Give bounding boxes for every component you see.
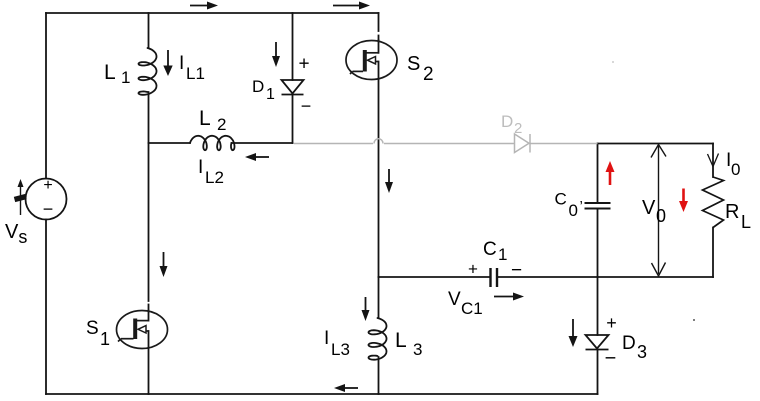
svg-text:L: L [741, 212, 751, 232]
svg-text:L1: L1 [186, 64, 205, 83]
mosfet S1 [117, 311, 168, 349]
mosfet S2 [346, 41, 397, 80]
diode D2 gray [515, 134, 530, 153]
arrow mid down (below S2) [385, 169, 393, 193]
wire left vertical lower [45, 220, 47, 395]
wire C0 branch bottom [597, 210, 599, 278]
svg-text:L: L [104, 61, 116, 84]
svg-text:−: − [43, 199, 54, 219]
wire S2 branch top [378, 13, 380, 31]
svg-text:I: I [324, 328, 329, 349]
svg-text:C1: C1 [461, 299, 483, 318]
svg-text:I: I [179, 53, 184, 74]
wire RL branch upper [712, 144, 714, 178]
wire D3 branch upper [597, 277, 599, 335]
arrow IL3 down [362, 297, 370, 321]
svg-text:Vs: Vs [5, 221, 27, 247]
svg-text:R: R [725, 201, 739, 223]
svg-text:1: 1 [100, 329, 110, 349]
svg-text:−: − [605, 348, 617, 370]
svg-text:C: C [483, 239, 497, 260]
wire L2 row right [232, 142, 293, 144]
svg-text:+: + [606, 313, 617, 333]
arrow V0 double [651, 145, 666, 277]
wire C1 row left [379, 276, 491, 278]
svg-text:1: 1 [266, 86, 275, 103]
inductor L2 [190, 136, 235, 150]
svg-text:−: − [301, 96, 312, 116]
svg-text:L: L [199, 107, 211, 130]
svg-text:C: C [555, 190, 567, 209]
svg-text:0: 0 [569, 201, 578, 220]
svg-text:3: 3 [413, 340, 422, 359]
wire D3 branch lower [597, 350, 599, 395]
wire bottom horizontal [46, 393, 598, 395]
svg-text:1: 1 [498, 245, 507, 264]
arrow I0 chevron on RL wire [708, 154, 719, 167]
wire C1 row right [497, 276, 713, 278]
stray dot [693, 319, 695, 321]
wire S2 branch lower [378, 62, 380, 278]
wire L2 row left [149, 142, 191, 144]
diode D3 [586, 335, 609, 350]
arrow top wire 2 [333, 2, 370, 10]
svg-text:V: V [642, 197, 656, 219]
svg-text:1: 1 [121, 68, 130, 87]
svg-text:D: D [622, 333, 636, 354]
svg-text:3: 3 [637, 342, 647, 362]
svg-text:’: ’ [580, 198, 583, 215]
wire branch2 inside S1 circle upper [148, 311, 150, 321]
wire S2 branch dash [378, 36, 380, 41]
wire branch2 middle [148, 92, 150, 301]
svg-text:0: 0 [731, 160, 740, 179]
svg-text:V: V [448, 289, 461, 310]
wire D1 branch lower [292, 95, 294, 144]
voltage source Vs circle [26, 179, 67, 220]
resistor RL [703, 177, 724, 228]
wire L3 branch upper [378, 277, 380, 318]
arrow IL1 down [163, 50, 172, 76]
arrow D1 down [272, 42, 280, 67]
svg-text:+: + [298, 54, 309, 75]
svg-text:2: 2 [514, 120, 522, 137]
arrow red down (load current) [679, 189, 688, 213]
wire left vertical (Vs branch) [45, 13, 47, 179]
wire branch2 below S1 [148, 331, 150, 394]
capacitor C0' [585, 203, 611, 209]
arrow top wire 1 [190, 2, 218, 10]
arrow bottom left [334, 384, 358, 392]
svg-text:2: 2 [423, 64, 434, 85]
svg-text:I: I [198, 157, 203, 178]
wire D1 branch vertical [292, 13, 294, 80]
diode D1 [282, 80, 304, 95]
wire S2 branch inside circle upper [378, 40, 380, 53]
inductor L1 [139, 48, 157, 95]
wire output top [598, 143, 714, 145]
svg-text:S: S [86, 318, 99, 339]
svg-text:L3: L3 [331, 340, 350, 359]
arrow VC1 right [494, 293, 524, 301]
wire branch2 dash above S1 [148, 305, 150, 311]
svg-text:−: − [511, 260, 522, 281]
arrow under L2 left [245, 153, 269, 161]
svg-text:L2: L2 [205, 168, 224, 187]
svg-text:D: D [501, 112, 513, 131]
inductor L3 [369, 318, 387, 360]
arrow D3 down [569, 319, 578, 347]
capacitor C1 [491, 268, 498, 287]
svg-text:2: 2 [217, 115, 226, 134]
Vs left polarity arrow [15, 179, 27, 215]
arrow branch2 down (above S1) [160, 252, 168, 277]
svg-text:D: D [252, 77, 264, 96]
wire D2 gray row [294, 134, 598, 153]
svg-text:+: + [468, 260, 478, 279]
wire L3 branch lower [378, 357, 380, 394]
faint speck [612, 61, 614, 63]
svg-text:S: S [407, 53, 420, 75]
svg-text:+: + [43, 177, 52, 194]
wire RL branch lower [712, 228, 714, 278]
svg-text:0: 0 [656, 206, 666, 226]
wire branch2 top (L1 branch) [148, 13, 150, 48]
svg-text:L: L [395, 329, 407, 352]
arrow red up (C0 current) [606, 161, 615, 185]
wire C0 branch top [597, 144, 599, 203]
wire top horizontal [46, 12, 379, 14]
